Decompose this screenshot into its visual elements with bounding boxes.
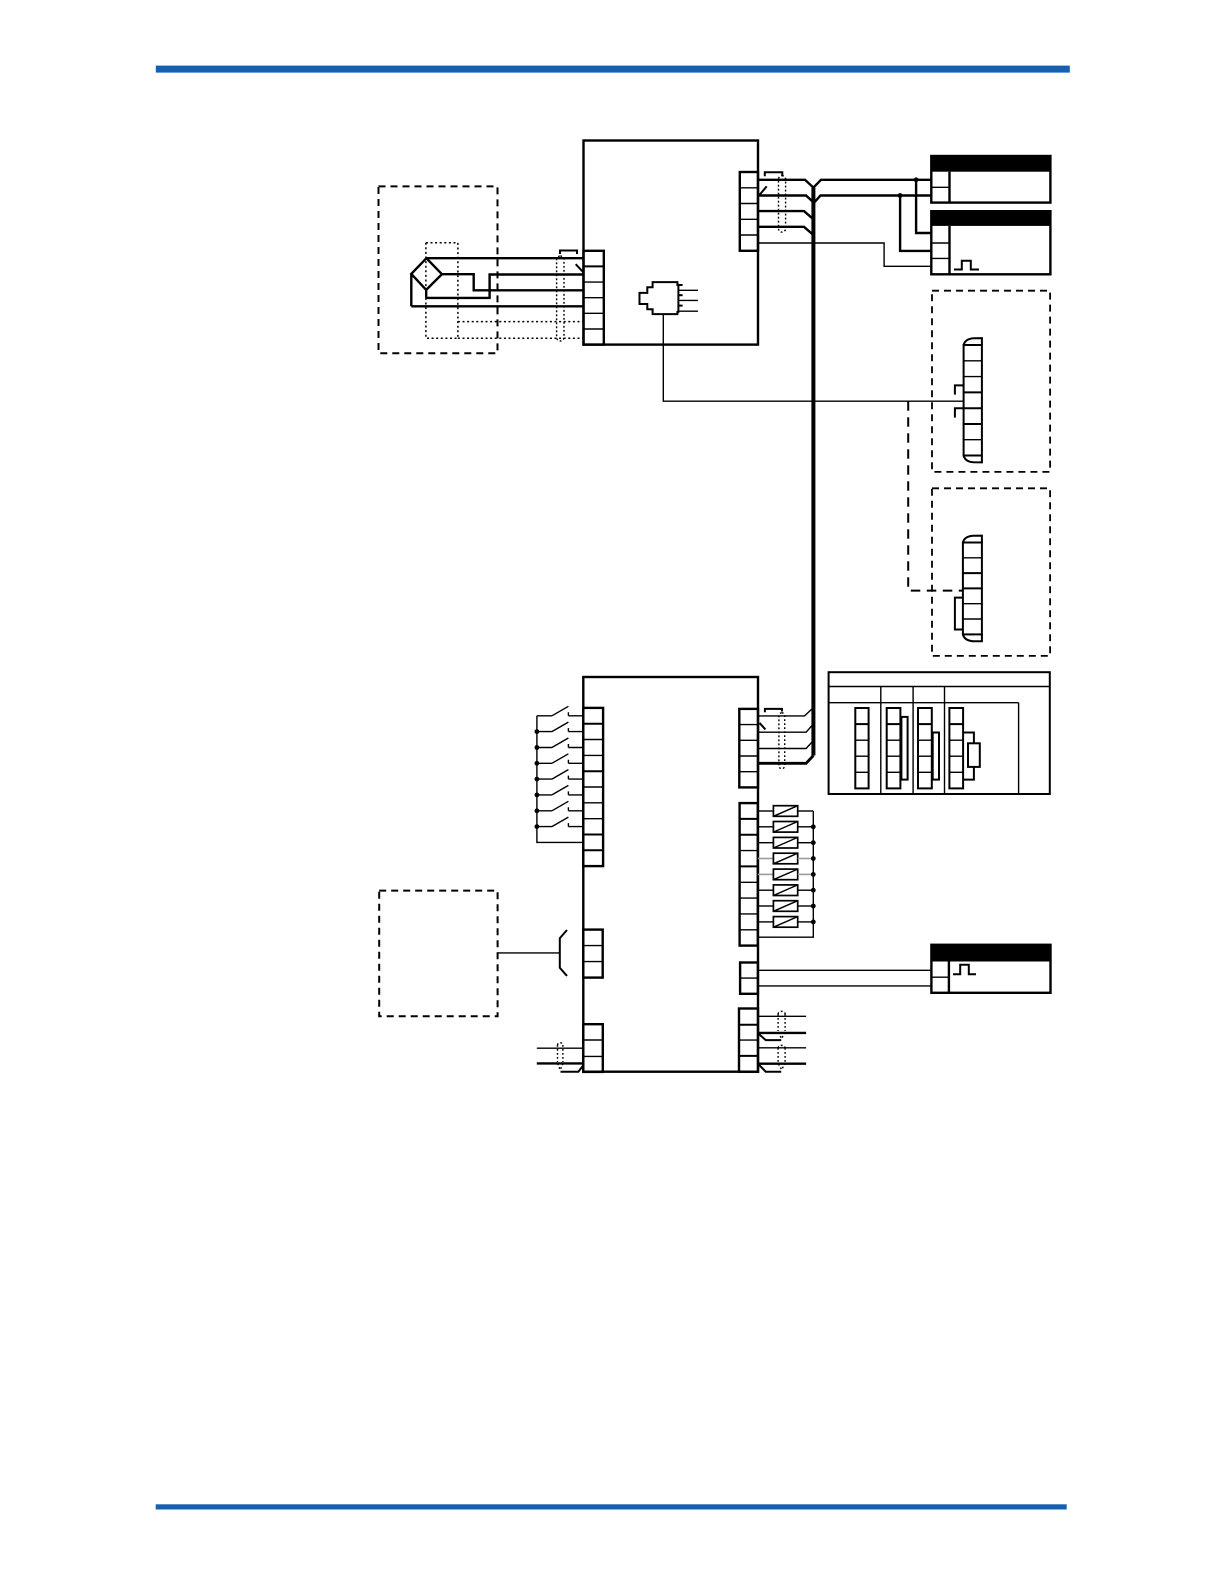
pulse counter box K3	[931, 945, 1050, 993]
shield S6 with drain arrow	[778, 1045, 785, 1069]
encoder dotted box	[426, 243, 458, 339]
wire motor 4	[411, 305, 583, 307]
pulse symbol in K3	[953, 965, 976, 975]
twisted pair flag H6	[759, 1064, 782, 1071]
drain wire hook H2	[760, 186, 767, 195]
wire B branch	[900, 196, 931, 251]
shield S5 with drain arrow	[778, 1011, 785, 1038]
load return bus	[758, 811, 814, 937]
CPU / IO unit (lower block)	[583, 677, 758, 1072]
dashed connector box CN2	[932, 488, 1050, 656]
position control unit U1 (top block)	[584, 141, 759, 345]
drain wire hook H4	[760, 723, 766, 730]
motor M1	[411, 258, 442, 306]
load L2	[758, 822, 816, 833]
switch SW4	[535, 754, 584, 766]
wire C into trunk	[758, 211, 813, 219]
wire A branch	[916, 180, 931, 233]
servo relay box K1	[931, 156, 1050, 203]
dashed branch wire to CN2	[908, 401, 963, 590]
CN1 bracket pin 2	[955, 408, 964, 417]
NC unit terminal strip	[949, 708, 979, 788]
load L6	[758, 885, 816, 896]
wire E (signal)	[758, 243, 931, 266]
connector strip CN2	[963, 536, 982, 642]
terminal block TB2 (top block right, 5 cells)	[740, 172, 758, 251]
wire comm thick	[537, 1062, 584, 1064]
servo terminal block TB6 (5 cells)	[739, 709, 758, 788]
wire pair1 thin	[758, 1015, 806, 1017]
output terminal block TB7 (9 cells)	[740, 803, 758, 946]
twisted pair flag H3	[561, 1065, 584, 1072]
input common bus	[537, 716, 583, 843]
load L4	[758, 853, 816, 864]
top blue rule	[156, 66, 1070, 73]
cable shield S4	[779, 713, 785, 769]
motor dashed enclosure	[379, 186, 498, 353]
analog terminal block TB4 (3 cells)	[583, 930, 602, 978]
servo relay box K2	[931, 211, 1050, 274]
junction node A	[914, 177, 919, 182]
modular jack J1	[640, 282, 699, 314]
wire motor 2	[442, 274, 584, 290]
wire H into trunk	[758, 741, 813, 749]
wire from external device	[498, 952, 560, 954]
wire A (power line 1)	[758, 180, 931, 188]
wire F into trunk	[758, 708, 813, 716]
cable fan-out F1	[560, 930, 567, 976]
input terminal block TB3 (10 cells)	[583, 708, 603, 866]
switch SW7	[535, 801, 584, 813]
load L3	[758, 837, 816, 848]
switch SW8	[535, 817, 584, 829]
dashed connector box CN1	[932, 291, 1050, 472]
wire D into trunk	[758, 227, 813, 235]
encoder dotted wire 2	[458, 337, 584, 339]
wire B (power line 2)	[758, 196, 931, 203]
wire J1 to CN1	[663, 314, 963, 401]
twisted pair flag H5	[759, 1034, 782, 1040]
CN2 bracket pin	[955, 598, 963, 630]
cable shield S2	[779, 176, 786, 232]
wire motor 1	[426, 257, 583, 259]
PS1 terminal strip	[855, 708, 868, 788]
switch SW5	[535, 770, 584, 782]
PLC rack PS1	[829, 672, 1050, 794]
cable trunk	[811, 188, 815, 756]
wire pair2 thick	[758, 1062, 806, 1064]
bottom blue rule	[156, 1504, 1067, 1509]
wire motor 3	[426, 275, 583, 298]
wire G into trunk	[758, 724, 813, 732]
load L1	[758, 806, 814, 817]
switch SW3	[535, 738, 584, 750]
encoder dotted wire 1	[458, 321, 584, 323]
switch SW6	[535, 785, 584, 797]
terminal block TB1 (top block left, 6 cells)	[584, 251, 604, 345]
wire pulse 1	[758, 969, 932, 971]
switch SW1	[537, 706, 583, 716]
comm terminal block TB9 (4 cells)	[739, 1009, 758, 1072]
CPU terminal strip	[887, 708, 908, 788]
FG clamp bracket B2	[765, 172, 783, 176]
wire pulse 2	[758, 985, 932, 987]
wire comm thin	[537, 1047, 584, 1049]
CN1 bracket pin 1	[955, 385, 964, 394]
FG clamp bracket B1	[560, 251, 577, 255]
external device dashed box	[379, 891, 497, 1017]
load L7	[758, 901, 816, 912]
cable shield S1	[557, 256, 564, 341]
pulse terminal block TB8 (2 cells)	[740, 963, 758, 994]
drain wire hook H1	[576, 264, 584, 272]
shield S3 with drain arrow	[558, 1043, 563, 1070]
junction node B	[898, 193, 903, 198]
load L8	[758, 917, 816, 928]
connector strip CN1	[964, 338, 982, 462]
comm terminal block TB5 (3 cells)	[583, 1024, 603, 1072]
IO terminal strip	[918, 708, 939, 788]
wire pair2 thin	[758, 1047, 806, 1049]
wire I thick into trunk	[758, 756, 813, 764]
switch SW2	[535, 722, 584, 734]
pulse symbol in K2	[954, 261, 979, 270]
load L5	[758, 869, 816, 880]
wire pair1 thick	[758, 1032, 806, 1034]
FG clamp bracket B3	[765, 709, 782, 712]
